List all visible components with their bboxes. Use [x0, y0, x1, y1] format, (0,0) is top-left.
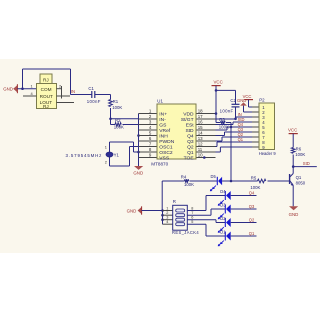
U1 reference designator [157, 99, 163, 104]
net label StD [238, 117, 245, 122]
resistor R1 100K [109, 99, 123, 110]
svg-text:ESt: ESt [186, 122, 195, 128]
svg-text:P2: P2 [259, 98, 265, 103]
svg-text:16: 16 [198, 119, 203, 124]
wire Q4 pin to Q3 row [216, 132, 253, 136]
net label IN at jack output [71, 89, 75, 94]
svg-text:StD: StD [303, 161, 310, 166]
wire pack pin5 to D1 [187, 224, 225, 236]
svg-text:R: R [173, 199, 176, 204]
wire pack pin8 to D4 [187, 196, 225, 211]
power port VCC at R6 [288, 128, 298, 148]
pin 3 wire jack [57, 95, 71, 97]
svg-text:Q4: Q4 [249, 191, 255, 196]
svg-text:RES_JACK4: RES_JACK4 [172, 230, 199, 235]
svg-text:VDD: VDD [183, 111, 194, 117]
resistor R2 100K [114, 118, 124, 130]
pack value RES_JACK4 [172, 230, 199, 235]
node junction VCC at VDD pin [215, 112, 218, 115]
LED D1 [218, 230, 231, 247]
crystal Y1 3.579545MHz [66, 142, 120, 166]
node junction VCC/C2 branch [215, 89, 218, 92]
resistor pack R RES_JACK4 [173, 205, 188, 230]
wire pack pin6 to D2 [187, 220, 225, 223]
transistor Q1 8050 [290, 167, 306, 186]
pin 4 wire jack [23, 95, 37, 97]
node junction on TOE stub [203, 156, 206, 159]
svg-text:100K: 100K [112, 105, 122, 110]
svg-text:D3: D3 [220, 203, 226, 208]
wire Q2 pin to Q1 row [216, 142, 253, 147]
node junction StD/R3 [230, 126, 233, 129]
net label Q2 [249, 218, 255, 223]
svg-text:100nF: 100nF [87, 99, 101, 104]
svg-text:3.579545MHz: 3.579545MHz [66, 153, 103, 158]
wire D2 to Q2 stub [231, 222, 257, 224]
svg-text:8050: 8050 [296, 180, 306, 185]
wire U1 pin stubs left and right [139, 114, 216, 158]
wire D4 to Q4 stub [231, 195, 257, 197]
svg-text:R3: R3 [219, 117, 225, 122]
wire R4 left down to pack common [161, 181, 163, 211]
svg-text:VCC: VCC [288, 128, 297, 133]
svg-text:2: 2 [59, 84, 61, 89]
wire junction down to R2 [111, 119, 116, 125]
net label Q3 [249, 204, 255, 209]
op-amp U1 MT8870 DTMF decoder body [157, 104, 196, 161]
svg-text:4: 4 [166, 220, 168, 224]
wire R6 to collector node [292, 155, 294, 167]
wire crystal top to OSC2 [110, 142, 139, 152]
svg-text:2: 2 [105, 160, 107, 165]
svg-text:INH: INH [159, 133, 168, 139]
wire R5 to Q1 base [268, 180, 290, 182]
wire D1 to Q1 stub [231, 235, 257, 237]
svg-text:13: 13 [198, 136, 203, 141]
svg-text:11: 11 [198, 147, 203, 152]
wire C1 to R1 [95, 95, 111, 100]
pin 4 number jack [31, 91, 34, 96]
svg-text:D4: D4 [220, 189, 226, 194]
svg-text:Q3: Q3 [187, 139, 194, 145]
svg-text:GND: GND [127, 208, 137, 213]
ground GND power port at resistor pack [127, 206, 142, 214]
net label Q4 at header [238, 122, 244, 127]
wire D3 to Q3 stub [231, 208, 257, 210]
net label IN [238, 112, 242, 117]
pin numbers pack left [166, 207, 168, 225]
svg-text:GND: GND [3, 86, 13, 91]
node junctions on pack bus [161, 209, 164, 221]
wire header pin stubs [252, 107, 259, 147]
capacitor C1 100nF [87, 86, 101, 104]
svg-text:IN+: IN+ [159, 111, 167, 117]
svg-text:Q3: Q3 [249, 204, 255, 209]
wire loop jack pin1 to pin2 (left riser) [22, 69, 24, 89]
net label Q1 at header [238, 137, 244, 142]
svg-text:100K: 100K [114, 125, 124, 130]
svg-text:100K: 100K [184, 182, 194, 187]
svg-text:6: 6 [191, 216, 193, 220]
pin 5 wire jack [57, 102, 75, 104]
node junction bus at INH [137, 134, 140, 137]
svg-text:C1: C1 [88, 86, 94, 91]
svg-text:VRef: VRef [159, 128, 171, 134]
wire C2 bottom to St/GT row [235, 107, 237, 119]
wire C2 branch top [216, 90, 236, 104]
LED D2 [218, 216, 231, 233]
svg-text:1: 1 [105, 145, 107, 150]
svg-text:100K: 100K [250, 185, 260, 190]
pack reference designator R [173, 199, 176, 204]
pin 1 number jack [31, 84, 33, 89]
wire D5 row to R5 [222, 180, 257, 182]
svg-text:TOE: TOE [184, 155, 195, 161]
wire VCC stem to VDD [215, 90, 217, 122]
net label Q2 at header [238, 132, 244, 137]
svg-text:R1: R1 [113, 99, 119, 104]
pin numbers U1 [149, 108, 203, 157]
svg-text:17: 17 [198, 114, 203, 119]
svg-text:COM: COM [41, 87, 52, 92]
svg-text:IN: IN [71, 89, 75, 94]
svg-text:U1: U1 [157, 99, 163, 104]
wire GND to jack pin 1 [17, 88, 36, 90]
wire Q1 pin to header row 9 [216, 147, 253, 152]
svg-text:5: 5 [191, 220, 193, 224]
svg-text:C2: C2 [230, 98, 236, 103]
pin 2 number jack [59, 84, 61, 89]
resistor R3 100K [216, 117, 231, 129]
power port VCC at header pin 1 [243, 94, 259, 107]
wire R4 to D5 [190, 180, 218, 182]
pin 2 wire jack [57, 88, 63, 90]
svg-text:GND: GND [289, 212, 299, 217]
svg-text:GND: GND [133, 170, 143, 175]
svg-text:RJ: RJ [43, 78, 49, 83]
wire GND to pack common bus [142, 210, 163, 212]
connector RJ audio jack (top RJ box) [40, 74, 52, 84]
wire loop right riser to IN node [70, 69, 72, 95]
svg-text:St/GT: St/GT [181, 117, 194, 123]
svg-text:15: 15 [198, 125, 203, 130]
wire pack pin7 to D3 [187, 209, 225, 215]
wire crystal bottom to OSC1 [110, 147, 139, 167]
wire pack common bus vertical [162, 211, 164, 225]
wire R3 down to StD node [230, 123, 232, 128]
svg-text:R4: R4 [181, 174, 187, 179]
LED D4 [218, 189, 231, 206]
svg-text:14: 14 [198, 130, 203, 135]
P2 value Header 9 [259, 151, 277, 156]
svg-text:100K: 100K [295, 152, 305, 157]
svg-text:VCC: VCC [214, 80, 223, 85]
capacitor C2 100nF [220, 98, 240, 113]
wire StD pin to Q4 row [216, 127, 253, 130]
wire Q3 pin to Q2 row [216, 137, 253, 141]
svg-text:1: 1 [166, 207, 168, 211]
net label Q3 at header [238, 127, 244, 132]
ground GND power port below U1 [133, 166, 143, 175]
wire StD descender to D5 row [230, 127, 232, 181]
svg-text:GS: GS [159, 122, 167, 128]
pin tie vertical jack right [61, 86, 63, 99]
wire IN- to U1 pin 2 [111, 118, 139, 120]
svg-text:8: 8 [191, 207, 193, 211]
svg-text:D2: D2 [220, 216, 226, 221]
pin numbers pack right [191, 207, 193, 225]
U1 value MT8870 [151, 161, 168, 166]
wire R1 to IN- node [110, 108, 112, 119]
node junction C2/StGT [234, 118, 237, 121]
svg-text:10: 10 [198, 152, 203, 157]
svg-text:Q1: Q1 [238, 137, 244, 142]
svg-text:R2: R2 [115, 118, 121, 123]
svg-text:3: 3 [166, 216, 168, 220]
power port VCC above U1 [212, 80, 223, 91]
wire St/GT to IN row [216, 117, 253, 119]
ground GND power port at emitter [289, 206, 299, 217]
resistor R5 100K [250, 176, 265, 190]
connector P2 Header 9 [259, 103, 275, 150]
svg-text:RJ: RJ [43, 104, 49, 109]
svg-text:ROUT: ROUT [40, 94, 53, 99]
svg-text:PWDN: PWDN [159, 139, 174, 145]
svg-text:7: 7 [191, 211, 193, 215]
resistor R4 100K [162, 174, 194, 187]
svg-text:GND: GND [237, 98, 246, 103]
svg-text:12: 12 [198, 141, 203, 146]
svg-text:D5: D5 [211, 174, 217, 179]
wire emitter to GND [292, 185, 294, 206]
svg-text:R6: R6 [296, 147, 302, 152]
svg-text:MT8870: MT8870 [151, 161, 168, 166]
connector RJ audio jack body COM/ROUT/LOUT [37, 84, 57, 110]
svg-text:18: 18 [198, 108, 203, 113]
svg-text:Q1: Q1 [296, 175, 302, 180]
wire R2 to U1 pin 3 GS [123, 124, 139, 126]
node junction at jack pin 1 [21, 87, 24, 90]
svg-text:OSC2: OSC2 [159, 150, 173, 156]
svg-text:Q4: Q4 [187, 133, 194, 139]
wire StD net stub [293, 166, 317, 168]
net label StD at collector [303, 161, 310, 166]
svg-text:OSC1: OSC1 [159, 144, 173, 150]
ground GND power port at audio jack pin 1 [3, 84, 17, 93]
svg-text:100nF: 100nF [220, 108, 234, 113]
wire pack left pins [163, 211, 173, 225]
svg-text:Y1: Y1 [114, 152, 120, 157]
node junction bus at OSC2 [137, 151, 140, 154]
svg-text:D1: D1 [220, 230, 226, 235]
LED D3 [218, 203, 231, 220]
svg-text:2: 2 [166, 211, 168, 215]
svg-text:StD: StD [185, 128, 194, 134]
resistor R6 100K [291, 147, 305, 158]
node junction StD/collector [292, 165, 295, 168]
svg-text:R5: R5 [251, 176, 257, 181]
wire loop top [23, 68, 71, 70]
LED D5 [210, 174, 222, 191]
ground GND power port at header pin 2 [237, 98, 259, 112]
net label Q4 [249, 191, 255, 196]
wire bias bus vertical (IN+ to GND) [138, 114, 140, 167]
svg-text:Header 9: Header 9 [259, 151, 277, 156]
node junction D5/StD/R5 [230, 180, 233, 183]
svg-text:1: 1 [31, 84, 33, 89]
net label Q1 [249, 231, 255, 236]
node junction R1/R2/IN- [109, 118, 112, 121]
wire ESt to StD row [216, 122, 253, 125]
svg-text:Q2: Q2 [249, 218, 255, 223]
P2 reference designator [259, 98, 265, 103]
svg-text:Q1: Q1 [249, 231, 255, 236]
svg-text:Q2: Q2 [187, 144, 194, 150]
wire IN node to C1 [71, 94, 92, 96]
svg-text:IN-: IN- [159, 117, 166, 123]
svg-text:Q1: Q1 [187, 150, 194, 156]
